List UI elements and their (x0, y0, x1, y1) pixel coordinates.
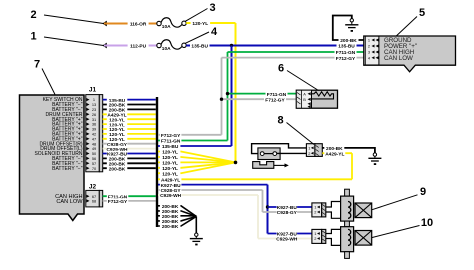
wire F712-GY J2 pin 68 (103, 198, 156, 205)
svg-text:2: 2 (368, 44, 370, 49)
wire K927-BU bus exit (158, 182, 268, 189)
solenoid L1 body (341, 189, 354, 221)
wire 120-YL J1 pin 31 (103, 117, 156, 124)
wire 200-BK J1 pin 57 (103, 161, 156, 168)
fuse F1 10A (157, 18, 186, 30)
connector C9 (312, 203, 326, 217)
svg-text:116-OR: 116-OR (130, 22, 147, 28)
wire 120-YL bus exit 3 (158, 160, 236, 167)
wire 120-YL bus exit 5 (158, 162, 236, 177)
wire 116-OR (104, 21, 157, 28)
svg-text:8: 8 (277, 115, 283, 127)
callout 6 (278, 63, 319, 91)
svg-text:A: A (303, 92, 306, 97)
wire A429-YL J1 pin 26 (103, 112, 156, 119)
connector C10 (312, 229, 326, 243)
junction gray (220, 98, 223, 101)
wire F711-GN J2 pin 67 (103, 194, 156, 201)
switch S1 box (258, 148, 280, 160)
svg-text:F712-GY: F712-GY (336, 56, 356, 62)
wire 120-YL J1 pin 48 (103, 136, 156, 143)
callout 9 (372, 186, 426, 210)
ground (top right) (345, 19, 358, 32)
wire C929-WH to solenoid 10 (258, 236, 312, 243)
magnet block (253, 162, 274, 169)
svg-text:2: 2 (308, 151, 310, 156)
wire 120-YL J1 pin 45 (103, 131, 156, 138)
svg-text:A429-YL: A429-YL (325, 151, 344, 157)
svg-text:135-BU: 135-BU (338, 44, 355, 50)
wire F711-GN bus exit (158, 138, 228, 145)
ground (below harness) (190, 233, 203, 245)
fuse F2 10A (157, 40, 186, 52)
connector 5 (display module) (364, 36, 456, 72)
svg-text:120-YL: 120-YL (162, 171, 178, 177)
svg-text:200-BK: 200-BK (162, 224, 179, 230)
svg-text:BATTERY "−": BATTERY "−" (52, 166, 83, 172)
wire F711-GN horizontal top (to connector pin 3) (228, 49, 364, 56)
svg-text:135-BU: 135-BU (191, 44, 208, 50)
svg-text:1: 1 (368, 38, 370, 43)
harness bus (156, 97, 158, 227)
ground (right of switch assembly) (368, 153, 381, 165)
svg-text:10A: 10A (162, 24, 171, 30)
junction K927-BU (266, 205, 269, 208)
svg-text:7: 7 (34, 59, 40, 71)
wire 200-BK bus exit 5 (158, 216, 196, 230)
svg-text:2: 2 (30, 9, 36, 21)
wire 200-BK bus exit 1 (158, 203, 196, 216)
svg-text:C928-GY: C928-GY (277, 210, 298, 216)
wire 135-BU (fuse F2 output to connector pin 2) (186, 43, 364, 50)
svg-text:3: 3 (209, 2, 215, 14)
callout 3 (185, 2, 215, 21)
svg-text:4: 4 (211, 26, 218, 38)
wire 120-YL (fuse F1 output) (186, 20, 235, 27)
svg-text:1: 1 (30, 31, 36, 43)
wire 200-BK bus exit 2 (158, 208, 196, 216)
solenoid valve X-box 10 (355, 231, 372, 246)
svg-text:68: 68 (92, 199, 96, 204)
wire F712-GY horizontal top (to connector pin 4) (222, 55, 364, 62)
connector J1 (86, 87, 103, 172)
wire C928-GY vertical (262, 190, 264, 212)
wire F712-GY bus exit (158, 132, 222, 139)
motion arrow (274, 163, 289, 167)
wire switch to connector pin 2 (277, 152, 307, 154)
wire 200-BK J1 pin 70 (103, 166, 156, 173)
wire K927-BU to solenoid 9 (268, 204, 312, 211)
svg-text:F712-GY: F712-GY (265, 97, 285, 103)
junction green (226, 92, 229, 95)
callout 2 (30, 9, 106, 27)
wire 200-BK J1 pin 23 (103, 107, 156, 114)
svg-text:B: B (303, 97, 306, 102)
wire C928-GY J1 pin 17 (103, 141, 156, 148)
svg-text:10: 10 (421, 217, 433, 229)
wire C929-WH J1 pin 18 (103, 146, 156, 153)
wire C928-GY to solenoid 9 (263, 209, 312, 216)
svg-text:9: 9 (420, 186, 426, 198)
svg-text:1: 1 (308, 146, 310, 151)
wire C929-WH vertical (257, 195, 259, 239)
connector C8 (306, 144, 322, 157)
svg-text:10A: 10A (162, 46, 171, 52)
wire F711-GN to terminator (228, 91, 297, 98)
wire 120-YL bus exit 1 (158, 149, 236, 163)
wires connector C10 to coil L2 (326, 229, 348, 245)
svg-text:F712-GY: F712-GY (108, 199, 128, 205)
solenoid valve X-box 9 (355, 203, 372, 218)
svg-text:J1: J1 (89, 87, 97, 94)
wire F712-GY vertical (221, 58, 223, 135)
wire K927-BU to solenoid 10 (268, 231, 312, 238)
wire 120-YL J1 pin 39 (103, 121, 156, 128)
wire 200-BK to ground (connector pin 1) (333, 16, 364, 45)
svg-text:120-YL: 120-YL (192, 21, 208, 27)
wire 135-BU bus exit (158, 143, 232, 150)
wire 120-YL bus exit 4 (158, 162, 236, 172)
stem between solenoids (345, 221, 350, 227)
callout 5 (397, 7, 426, 36)
control module box (component 7) (20, 95, 85, 221)
wire 200-BK bus exit 4 (158, 216, 196, 225)
wire 200-BK bus exit 3 (158, 213, 196, 220)
wires connector C9 to coil L1 (326, 202, 348, 219)
svg-text:CAN LOW: CAN LOW (384, 55, 413, 62)
wire K927-BU J1 pin 47 (103, 151, 156, 158)
wire A429-YL bus exit (158, 177, 352, 184)
svg-text:2: 2 (314, 236, 316, 241)
wire F711-GN vertical (227, 52, 229, 141)
svg-text:2: 2 (314, 210, 316, 215)
wire 135-BU J1 pin 1 (103, 97, 156, 104)
svg-text:112-PU: 112-PU (130, 44, 147, 50)
svg-text:CAN LOW: CAN LOW (56, 199, 83, 205)
wire 120-YL bus exit 2 (158, 154, 236, 162)
junction yellow 120-YL (234, 161, 238, 165)
svg-text:6: 6 (278, 63, 284, 75)
wire 200-BK from connector C8 (322, 145, 375, 153)
svg-text:5: 5 (419, 7, 425, 19)
wire 200-BK J1 pin 13 (103, 102, 156, 109)
wire A429-YL from connector C8 (322, 151, 352, 158)
svg-text:C929-WH: C929-WH (160, 193, 182, 199)
junction blue 135-BU (230, 44, 233, 47)
wire A429-YL vertical (351, 153, 353, 179)
callout 1 (30, 31, 106, 49)
wire 135-BU vertical (231, 46, 233, 147)
wire 120-YL J1 pin 42 (103, 126, 156, 133)
svg-text:3: 3 (368, 50, 370, 55)
svg-text:J2: J2 (89, 184, 97, 191)
wire 112-PU (104, 43, 157, 50)
switch assembly loop wire (252, 144, 307, 154)
connector J2 (86, 184, 103, 207)
wire 120-YL vertical (235, 23, 237, 162)
callout 10 (372, 217, 433, 238)
wire 200-BK ground drop (195, 216, 197, 233)
wire F712-GY to terminator (222, 96, 297, 103)
callout 4 (185, 26, 218, 43)
wire C928-GY bus exit (158, 187, 263, 194)
solenoid L2 body (341, 227, 354, 259)
callout 7 (34, 59, 55, 95)
svg-text:200-BK: 200-BK (340, 38, 357, 44)
terminating resistor U6 (296, 90, 337, 108)
wire K927-BU vertical (267, 185, 269, 234)
wire C929-WH bus exit (158, 192, 258, 199)
wire 200-BK J1 pin 50 (103, 156, 156, 163)
svg-text:200-BK: 200-BK (109, 166, 126, 172)
callout 8 (277, 115, 314, 145)
svg-text:C929-WH: C929-WH (276, 237, 298, 243)
